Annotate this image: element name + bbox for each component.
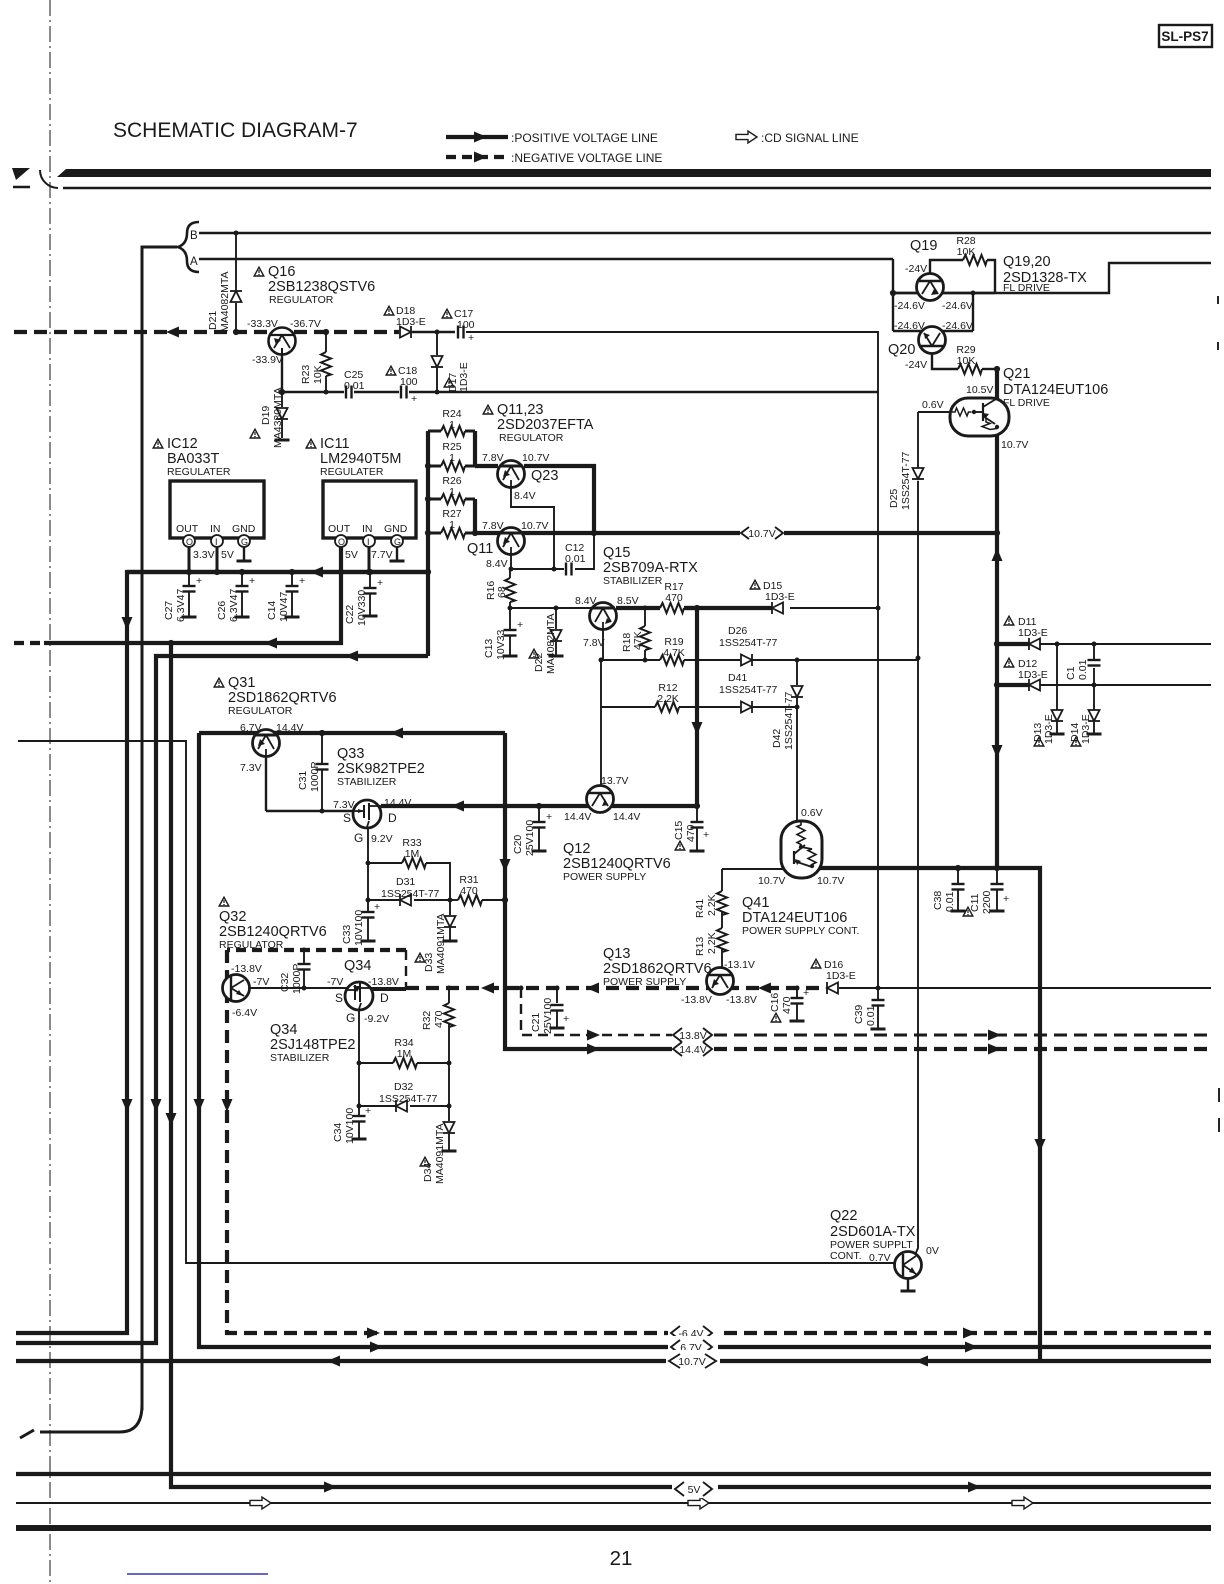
- resistor R28: [963, 255, 987, 265]
- bus tag 13.8V: [673, 1028, 712, 1042]
- svg-text:+: +: [703, 829, 709, 841]
- svg-text:MA4091MTA: MA4091MTA: [435, 914, 447, 975]
- svg-text:10.7V: 10.7V: [817, 875, 844, 887]
- diode D19: [281, 392, 283, 407]
- svg-text:G: G: [354, 831, 363, 845]
- diode D15: [772, 602, 783, 614]
- resistor R12: [655, 702, 679, 712]
- wire D12 line: [997, 683, 1029, 687]
- capacitor C26: [241, 572, 243, 585]
- svg-text:10V47: 10V47: [278, 591, 290, 622]
- wire FL drive output step: [893, 263, 1211, 293]
- legend negative line: [446, 155, 508, 159]
- wire Q23 emitter jog: [511, 486, 554, 569]
- svg-text:Q22: Q22: [830, 1208, 857, 1224]
- wire Q20 top line: [893, 330, 973, 332]
- svg-text:IC12: IC12: [167, 436, 198, 452]
- wire 10.7V bottom bus: [16, 1359, 1211, 1363]
- diode D25: [912, 468, 924, 479]
- svg-text:13.8V: 13.8V: [679, 1030, 706, 1042]
- wire IC12 in pin: [216, 547, 219, 572]
- wire Q34 gate column: [358, 1009, 360, 1106]
- svg-text:-6.4V: -6.4V: [232, 1007, 257, 1019]
- wire R28 loop: [930, 260, 963, 274]
- svg-text:D: D: [380, 991, 389, 1005]
- capacitor C13: [509, 608, 511, 629]
- wire Q31 emitter: [265, 756, 267, 811]
- wire Q16 emitter: [281, 354, 283, 392]
- svg-text:-24V: -24V: [905, 263, 927, 275]
- svg-text:1SS254T-77: 1SS254T-77: [381, 888, 440, 900]
- svg-text:5V: 5V: [688, 1484, 701, 1496]
- wire R12 branch: [601, 660, 655, 707]
- svg-text:-36.7V: -36.7V: [290, 318, 321, 330]
- wire D14 stub: [1093, 685, 1095, 710]
- wire negative -13.8V dashed: [250, 987, 406, 989]
- wire Q15 base line thin: [510, 607, 591, 609]
- capacitor C34: [358, 1106, 360, 1115]
- svg-text:47K: 47K: [632, 631, 644, 650]
- svg-text:+: +: [468, 332, 474, 344]
- svg-text:O: O: [186, 537, 193, 547]
- resistor R16: [509, 569, 511, 578]
- wire D11 line: [997, 642, 1029, 646]
- svg-text:LM2940T5M: LM2940T5M: [320, 451, 401, 467]
- wire Q12 line: [381, 804, 697, 808]
- svg-text:1: 1: [449, 452, 455, 464]
- svg-text:IN: IN: [210, 523, 221, 535]
- wire Q15 output line thick: [616, 606, 660, 610]
- label Q32: [219, 897, 229, 906]
- wire Q21 through vertical: [996, 369, 998, 400]
- svg-text:POWER SUPPLY: POWER SUPPLY: [563, 871, 646, 883]
- wire CD signal line: [16, 1502, 1211, 1504]
- svg-text:SCHEMATIC DIAGRAM-7: SCHEMATIC DIAGRAM-7: [113, 119, 358, 142]
- svg-text:10.7V: 10.7V: [758, 875, 785, 887]
- wire Q23 collector line: [524, 466, 594, 533]
- svg-text:CONT.: CONT.: [830, 1250, 862, 1262]
- wire 3.3V bus: [16, 572, 428, 1333]
- svg-text:5V: 5V: [221, 549, 234, 561]
- wire IC bus: [127, 570, 428, 574]
- wire D31 line: [368, 899, 400, 901]
- svg-text:10.7V: 10.7V: [678, 1356, 705, 1368]
- svg-text:-7V: -7V: [253, 976, 269, 988]
- wire R41 R13 column: [721, 869, 723, 891]
- digital transistor Q21: [950, 398, 1009, 436]
- svg-text:Q34: Q34: [270, 1022, 297, 1038]
- bus tag 10.7V bottom: [666, 1350, 720, 1370]
- svg-text:7.8V: 7.8V: [583, 637, 605, 649]
- svg-text:REGULATOR: REGULATOR: [499, 432, 564, 444]
- svg-text:I: I: [367, 537, 370, 547]
- svg-text:C16: C16: [769, 993, 781, 1012]
- svg-text:6.3V47: 6.3V47: [228, 589, 240, 622]
- svg-text:1SS254T-77: 1SS254T-77: [719, 684, 778, 696]
- svg-text:IC11: IC11: [320, 436, 350, 452]
- svg-text:4.7K: 4.7K: [663, 647, 685, 659]
- resistor R29: [958, 364, 982, 374]
- capacitor C39: [877, 988, 879, 999]
- svg-text:MA4091MTA: MA4091MTA: [434, 1124, 446, 1185]
- svg-text:21: 21: [610, 1547, 633, 1570]
- svg-text:7.3V: 7.3V: [333, 799, 355, 811]
- capacitor C25: [346, 386, 352, 399]
- diode D16: [827, 982, 838, 994]
- svg-text:10K: 10K: [957, 355, 976, 367]
- ground Q22: [907, 1278, 909, 1290]
- svg-text:S: S: [335, 991, 343, 1005]
- svg-text:7.8V: 7.8V: [482, 520, 504, 532]
- svg-text:G: G: [394, 537, 401, 547]
- svg-text:1M: 1M: [405, 848, 420, 860]
- legend CD signal line: [736, 131, 757, 143]
- SL-PS7 box: [1159, 25, 1212, 47]
- svg-text:1D3-E: 1D3-E: [1018, 627, 1048, 639]
- svg-text:2SK982TPE2: 2SK982TPE2: [337, 761, 425, 777]
- label Q31: [214, 678, 224, 687]
- svg-text:7.7V: 7.7V: [371, 549, 393, 561]
- wire C18 line: [282, 391, 344, 393]
- wire R24 left bus: [426, 431, 430, 656]
- wire 6.7V line: [199, 733, 1211, 1347]
- svg-text:0.01: 0.01: [944, 891, 956, 912]
- diode D26: [741, 654, 752, 666]
- svg-text:Q31: Q31: [228, 675, 255, 691]
- wire D15 to -33V vertical: [790, 607, 878, 609]
- IC12 regulator: [153, 439, 163, 448]
- svg-text:1SS254T-77: 1SS254T-77: [719, 637, 778, 649]
- diode D18: [400, 326, 411, 338]
- svg-text:470: 470: [665, 592, 683, 604]
- svg-text:2200: 2200: [981, 890, 993, 914]
- svg-text:D34: D34: [422, 1163, 434, 1182]
- svg-text:DTA124EUT106: DTA124EUT106: [742, 910, 847, 926]
- svg-text:2.2K: 2.2K: [657, 693, 679, 705]
- transistor Q19: [917, 274, 944, 301]
- resistor R25: [428, 465, 441, 468]
- svg-text:FL DRIVE: FL DRIVE: [1003, 282, 1050, 294]
- wire D13 stub: [1056, 644, 1058, 710]
- svg-text:D33: D33: [423, 953, 435, 972]
- svg-text:Q20: Q20: [888, 342, 915, 358]
- svg-text:-24.6V: -24.6V: [942, 320, 973, 332]
- svg-text:0.01: 0.01: [1077, 659, 1089, 680]
- svg-text:R23: R23: [300, 365, 312, 384]
- svg-text:68: 68: [496, 586, 508, 598]
- svg-text:D32: D32: [394, 1081, 413, 1093]
- svg-text:Q16: Q16: [268, 264, 295, 280]
- page corner mark top-left: [12, 168, 30, 180]
- wire negative exit bottom left: [60, 1405, 142, 1432]
- resistor R41: [717, 891, 727, 915]
- svg-text:2SB1238QSTV6: 2SB1238QSTV6: [268, 279, 375, 295]
- capacitor C12: [566, 563, 572, 576]
- wire Q19 emitter line: [893, 292, 995, 294]
- diode D41: [741, 701, 752, 713]
- svg-text:POWER SUPPLY CONT.: POWER SUPPLY CONT.: [742, 925, 859, 937]
- svg-text:1D3-E: 1D3-E: [765, 591, 795, 603]
- wire R26/R27 right link: [473, 499, 477, 533]
- capacitor C11: [996, 868, 998, 883]
- svg-text:-9.2V: -9.2V: [364, 1013, 389, 1025]
- bus tag 14.4V: [673, 1042, 712, 1056]
- svg-text:2.2K: 2.2K: [706, 932, 718, 954]
- svg-text:25V100: 25V100: [542, 998, 554, 1034]
- capacitor C1: [1088, 660, 1101, 666]
- diode D14: [1088, 710, 1100, 721]
- resistor R34: [393, 1058, 417, 1068]
- wire 5V line: [44, 545, 341, 643]
- node on 5V line: [338, 569, 344, 575]
- wire Q33 source line: [266, 810, 354, 812]
- svg-text:14.4V: 14.4V: [276, 722, 303, 734]
- svg-text:0.01: 0.01: [344, 380, 365, 392]
- svg-text:STABILIZER: STABILIZER: [603, 575, 663, 587]
- wire 10.7V mid bus: [594, 531, 740, 535]
- svg-text:POWER SUPPLY: POWER SUPPLY: [603, 976, 686, 988]
- diode D32: [396, 1100, 407, 1112]
- svg-text:C13: C13: [483, 639, 495, 658]
- svg-text::NEGATIVE VOLTAGE LINE: :NEGATIVE VOLTAGE LINE: [511, 151, 662, 165]
- wire Q11 emitter C12 line: [511, 555, 564, 569]
- svg-text:MA4082MTA: MA4082MTA: [219, 272, 231, 333]
- wire R24/R25 right link: [473, 431, 477, 466]
- svg-text:0V: 0V: [926, 1245, 939, 1257]
- capacitor C18: [401, 386, 407, 399]
- svg-text:Q19,20: Q19,20: [1003, 254, 1051, 270]
- svg-text:C38: C38: [932, 891, 944, 910]
- diode D21: [235, 233, 237, 290]
- bus tag -6.4V: [668, 1322, 718, 1342]
- wire A to Q19 loop: [892, 259, 894, 331]
- svg-text:IN: IN: [362, 523, 373, 535]
- wire Q41 base: [722, 868, 783, 870]
- svg-text:10V330: 10V330: [356, 590, 368, 626]
- svg-text:REGULATOR: REGULATOR: [219, 939, 284, 951]
- resistor R27: [428, 532, 441, 535]
- svg-text:B: B: [190, 230, 198, 242]
- capacitor C33: [367, 900, 369, 911]
- svg-text:6.3V47: 6.3V47: [175, 589, 187, 622]
- label Q11,23: [483, 405, 493, 414]
- svg-text:14.4V: 14.4V: [564, 811, 591, 823]
- svg-text:1SS254T-77: 1SS254T-77: [379, 1093, 438, 1105]
- resistor R31: [458, 895, 482, 905]
- svg-text:10.5V: 10.5V: [966, 384, 993, 396]
- svg-text:C31: C31: [297, 771, 309, 790]
- svg-text:+: +: [517, 619, 523, 631]
- svg-text:Q11,23: Q11,23: [497, 402, 544, 418]
- ground IC12: [243, 547, 245, 560]
- svg-text:R13: R13: [694, 937, 706, 956]
- capacitor C27: [188, 572, 190, 585]
- resistor R23: [325, 332, 327, 352]
- svg-text:G: G: [241, 537, 248, 547]
- svg-text:Q19: Q19: [910, 238, 937, 254]
- wire R33 loop: [367, 827, 369, 900]
- capacitor C38: [957, 868, 959, 883]
- svg-text:1M: 1M: [397, 1048, 412, 1060]
- diode D12: [1029, 679, 1040, 691]
- svg-text:I: I: [215, 537, 218, 547]
- svg-text:D26: D26: [728, 625, 747, 637]
- svg-text:OUT: OUT: [176, 523, 199, 535]
- svg-text:+: +: [546, 811, 552, 823]
- svg-text:REGULATOR: REGULATOR: [269, 294, 334, 306]
- svg-text:Q32: Q32: [219, 909, 246, 925]
- svg-text::POSITIVE VOLTAGE LINE: :POSITIVE VOLTAGE LINE: [511, 131, 658, 145]
- left page edge dash-dot line: [49, 0, 51, 1584]
- svg-text:+: +: [299, 575, 305, 587]
- svg-text:8.4V: 8.4V: [486, 558, 508, 570]
- svg-text:10.7V: 10.7V: [1001, 439, 1028, 451]
- capacitor C14: [291, 572, 293, 585]
- svg-text:+: +: [411, 393, 417, 405]
- svg-text:100: 100: [457, 319, 475, 331]
- svg-text:D42: D42: [771, 729, 783, 748]
- negative -33V dashed line: [14, 330, 399, 334]
- wire Q15 feed vertical: [695, 608, 699, 806]
- svg-text:2.2K: 2.2K: [706, 894, 718, 916]
- diode D34: [443, 1122, 455, 1133]
- svg-text:1: 1: [449, 419, 455, 431]
- svg-text:0.7V: 0.7V: [869, 1252, 891, 1264]
- wire Q31 collector line: [199, 731, 505, 735]
- svg-text:8.5V: 8.5V: [617, 595, 639, 607]
- svg-text:D41: D41: [728, 672, 747, 684]
- svg-text:+: +: [377, 577, 383, 589]
- svg-text:1D3-E: 1D3-E: [826, 970, 856, 982]
- svg-text:D19: D19: [260, 406, 272, 425]
- transistor Q16: [254, 267, 264, 276]
- wire Q41 output 10.7V: [815, 868, 1040, 1361]
- wire 14.4V tag to right: [714, 1047, 1211, 1051]
- svg-text:2SD601A-TX: 2SD601A-TX: [830, 1224, 916, 1240]
- capacitor C31: [321, 733, 323, 763]
- right edge tick marks: [1217, 296, 1219, 304]
- wire Q11 collector line: [475, 531, 594, 535]
- blue scan underline: [127, 1573, 268, 1575]
- diode D31: [400, 894, 411, 906]
- svg-text:-13.8V: -13.8V: [681, 994, 712, 1006]
- svg-text:10V100: 10V100: [344, 1108, 356, 1144]
- svg-text:Q33: Q33: [337, 746, 364, 762]
- svg-text:C27: C27: [163, 601, 175, 620]
- resistor R26: [428, 498, 441, 501]
- svg-text:25V100: 25V100: [524, 820, 536, 856]
- svg-text:+: +: [1003, 893, 1009, 905]
- node 10.7V mid: [994, 530, 1000, 536]
- svg-text:1D3-E: 1D3-E: [1043, 714, 1055, 744]
- wire dashed tail at left: [20, 1430, 60, 1438]
- wire C12 link: [575, 533, 594, 569]
- wire bottom bus plain: [16, 1472, 1211, 1476]
- svg-text:470: 470: [685, 824, 697, 842]
- svg-text:-13.8V: -13.8V: [368, 976, 399, 988]
- diode D17: [436, 332, 438, 355]
- wire R17 mid: [686, 606, 697, 610]
- wire 14.4V vertical: [505, 733, 672, 1049]
- svg-text:7.8V: 7.8V: [482, 452, 504, 464]
- svg-text:1: 1: [449, 486, 455, 498]
- svg-text:470: 470: [781, 996, 793, 1014]
- svg-text:Q11: Q11: [467, 541, 493, 557]
- svg-text:-13.8V: -13.8V: [726, 994, 757, 1006]
- svg-text:-7V: -7V: [327, 976, 343, 988]
- svg-text:GND: GND: [232, 523, 256, 535]
- wire Q15 emitter line: [603, 629, 660, 660]
- resistor R33: [402, 858, 426, 868]
- svg-text:1: 1: [449, 519, 455, 531]
- node B: [178, 222, 199, 272]
- svg-text:D: D: [388, 811, 397, 825]
- wire brace to negative vertical: [142, 247, 177, 1410]
- wire 5V branch down: [171, 643, 1211, 1487]
- svg-text:1D3-E: 1D3-E: [458, 362, 470, 392]
- svg-text:2SD2037EFTA: 2SD2037EFTA: [497, 417, 594, 433]
- svg-text:0.6V: 0.6V: [801, 807, 823, 819]
- svg-text:1D3-E: 1D3-E: [1080, 714, 1092, 744]
- svg-text:C15: C15: [673, 821, 685, 840]
- svg-text::CD SIGNAL LINE: :CD SIGNAL LINE: [761, 131, 859, 145]
- svg-text:C11: C11: [969, 893, 981, 912]
- resistor R18: [644, 608, 646, 626]
- wire Q21 base 0.6V: [918, 411, 952, 413]
- svg-text:C39: C39: [853, 1005, 865, 1024]
- svg-text:1SS254T-77: 1SS254T-77: [900, 451, 912, 510]
- mosfet Q34: [345, 982, 373, 1010]
- svg-text:-24.6V: -24.6V: [942, 300, 973, 312]
- capacitor C20: [538, 806, 540, 821]
- svg-text:D31: D31: [396, 876, 415, 888]
- svg-text:R41: R41: [694, 899, 706, 918]
- svg-text:10K: 10K: [312, 365, 324, 384]
- svg-text:C20: C20: [512, 835, 524, 854]
- svg-text:Q12: Q12: [563, 841, 590, 857]
- capacitor C15: [696, 806, 698, 821]
- svg-text:14.4V: 14.4V: [613, 811, 640, 823]
- svg-text:100: 100: [400, 376, 418, 388]
- svg-text:+: +: [803, 987, 809, 999]
- transistor Q20: [919, 327, 946, 354]
- node B line: [199, 232, 1211, 234]
- svg-text:8.4V: 8.4V: [514, 490, 536, 502]
- capacitor C21: [556, 988, 558, 1003]
- bus tag 6.7V: [668, 1336, 718, 1356]
- svg-text:-33.9V: -33.9V: [252, 354, 283, 366]
- svg-text:10V100: 10V100: [353, 910, 365, 946]
- svg-text:0.01: 0.01: [865, 1005, 877, 1026]
- wire -33V thin continuation: [466, 332, 878, 986]
- wire R34 line: [359, 1062, 393, 1064]
- wire Q23 base line: [475, 464, 498, 468]
- wire Q21 emitter 10.7V vertical: [995, 369, 999, 868]
- svg-text:O: O: [338, 537, 345, 547]
- svg-text:DTA124EUT106: DTA124EUT106: [1003, 382, 1108, 398]
- resistor R17: [660, 603, 684, 613]
- svg-text:+: +: [374, 901, 380, 913]
- svg-text:REGULATOR: REGULATOR: [228, 705, 293, 717]
- svg-text:S: S: [343, 811, 351, 825]
- svg-text:-24.6V: -24.6V: [894, 300, 925, 312]
- wire IC12 out pin: [188, 547, 191, 572]
- svg-text:14.4V: 14.4V: [384, 797, 411, 809]
- bus tag 10.7V mid: [741, 527, 783, 540]
- wire D25 vertical: [917, 412, 919, 468]
- resistor R19: [660, 655, 684, 665]
- wire D42 vertical: [796, 660, 798, 685]
